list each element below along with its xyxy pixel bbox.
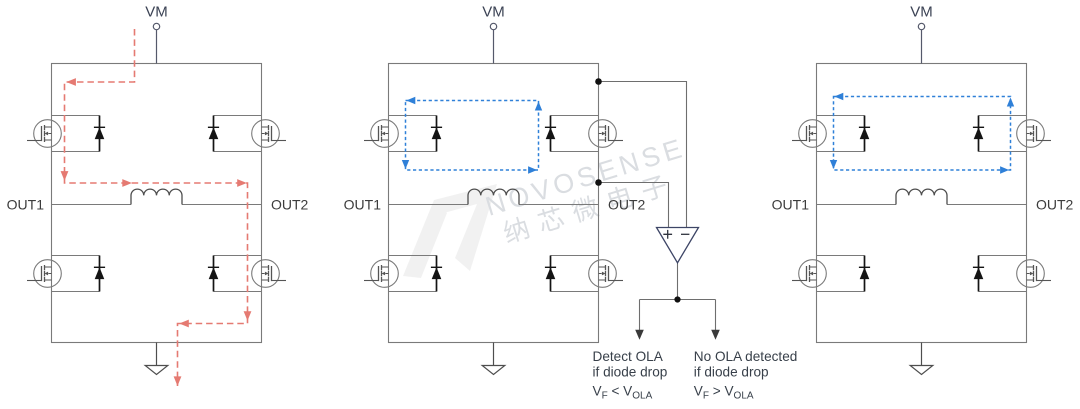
svg-text:if diode drop: if diode drop — [593, 365, 668, 380]
svg-text:VF < VOLA: VF < VOLA — [593, 383, 653, 401]
svg-text:VF > VOLA: VF > VOLA — [694, 383, 754, 401]
svg-text:if diode drop: if diode drop — [694, 365, 769, 380]
svg-text:Detect OLA: Detect OLA — [593, 349, 664, 364]
svg-text:No OLA detected: No OLA detected — [694, 349, 798, 364]
